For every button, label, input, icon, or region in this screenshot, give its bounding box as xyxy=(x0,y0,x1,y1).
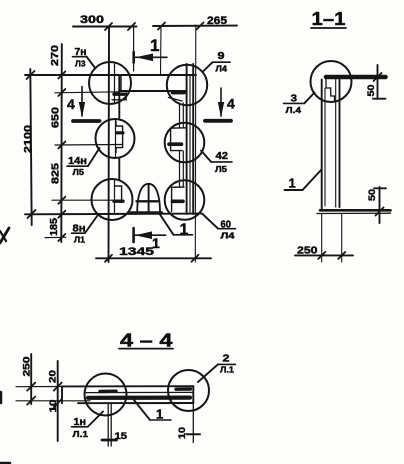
svg-text:250: 250 xyxy=(297,246,318,257)
dim line 300 xyxy=(73,26,137,28)
segmented dim line xyxy=(60,44,63,242)
wire right member left edge xyxy=(186,64,188,214)
wing B1 xyxy=(54,383,62,391)
extension down right xyxy=(341,214,343,263)
detail circle CR xyxy=(168,370,209,411)
svg-text:20: 20 xyxy=(48,370,59,383)
beam left end cap xyxy=(61,386,63,403)
leader 42 xyxy=(201,151,211,162)
dim line 1345 xyxy=(96,257,211,259)
bottom tick of 50 top xyxy=(373,98,386,100)
bar 7n/L3 xyxy=(73,56,87,58)
tick y75 xyxy=(58,72,65,79)
detail circle L1 xyxy=(89,62,131,104)
tick xyxy=(192,255,199,262)
dim 50 bottom: line xyxy=(379,187,381,223)
svg-text:Л5: Л5 xyxy=(73,167,85,177)
tick xyxy=(158,23,165,30)
wing A1 xyxy=(27,383,35,391)
lifting loop center line xyxy=(148,184,150,212)
wire left member inner line xyxy=(114,64,116,103)
svg-text:4: 4 xyxy=(67,96,75,112)
detail L3 weld dash xyxy=(114,199,123,202)
fraction bar 1n/L1 xyxy=(72,426,89,428)
channel left band line2 xyxy=(324,88,326,206)
part1 underline s44 xyxy=(150,419,171,421)
svg-text:185: 185 xyxy=(49,218,60,236)
svg-text:Л4: Л4 xyxy=(221,231,235,241)
CL weld dash xyxy=(100,390,116,394)
tick xyxy=(338,252,345,259)
detail L2 bracket xyxy=(116,122,123,153)
wire frame top edge + left extension xyxy=(25,74,196,76)
svg-text:15: 15 xyxy=(115,431,128,442)
tick y145 xyxy=(58,142,65,149)
extension down left xyxy=(321,214,323,263)
beam bottom edge xyxy=(78,402,193,404)
dim 50 top: line xyxy=(377,65,379,99)
bar 14n/L5 xyxy=(67,165,88,167)
tick xyxy=(105,23,112,30)
leader 2/L1 xyxy=(198,364,218,382)
svg-text:50: 50 xyxy=(366,85,377,97)
S1 top flange thick xyxy=(326,75,386,80)
section 4 left arrow shaft xyxy=(81,87,83,117)
detail L2 weld dash xyxy=(117,131,124,134)
wire arch base line xyxy=(130,211,162,213)
wire right member cover plate line b xyxy=(182,103,184,128)
detail R1 fillet diagonal xyxy=(169,98,183,102)
wire right member right edge xyxy=(192,64,194,214)
section 1 top arrow xyxy=(135,56,167,58)
right crossbar tick xyxy=(187,433,201,435)
wire right member cover plate line a xyxy=(179,103,181,128)
svg-text:60: 60 xyxy=(221,220,232,231)
svg-text:1: 1 xyxy=(289,176,296,191)
svg-text:10: 10 xyxy=(48,400,59,413)
tick xyxy=(128,23,135,30)
wire left member left edge (with extensions to top dim and bottom dim) xyxy=(108,27,111,262)
wing xyxy=(374,73,382,81)
wing xyxy=(28,210,36,218)
wing B2 xyxy=(54,399,62,407)
detail R2 bracket xyxy=(171,128,186,151)
svg-text:Л3: Л3 xyxy=(75,59,86,69)
svg-text:650: 650 xyxy=(51,106,62,128)
svg-text:7н: 7н xyxy=(75,47,87,58)
svg-text:Л4: Л4 xyxy=(216,64,228,74)
detail R3 weld dash xyxy=(173,200,184,204)
wire extension line y92.5 xyxy=(55,92,119,93)
section 1 bottom arrowhead xyxy=(135,231,152,239)
detail R1 weld dash xyxy=(173,91,185,95)
section 4 right arrow shaft xyxy=(220,88,222,116)
lifting loop crossbar xyxy=(137,200,158,202)
svg-text:265: 265 xyxy=(207,15,227,27)
leader 9 xyxy=(203,62,213,71)
svg-text:1н: 1н xyxy=(74,417,87,428)
detail R3 bracket xyxy=(172,187,184,212)
dim line B x57.7 xyxy=(57,361,59,441)
bar 8n/L1 xyxy=(72,232,86,234)
svg-text:4: 4 xyxy=(227,96,235,112)
svg-text:50: 50 xyxy=(367,189,378,201)
section line 1 bottom tick bar xyxy=(132,228,135,242)
wire extension line y145 xyxy=(55,144,122,147)
ext y386.6 xyxy=(16,386,62,388)
wire panel bottom edge long line y214 xyxy=(25,213,201,216)
channel right band line1 xyxy=(335,80,337,208)
tick xyxy=(105,255,112,262)
wire top member bottom edge xyxy=(119,90,187,92)
section line 1 top xyxy=(133,27,135,72)
section 4 right bar xyxy=(205,119,231,123)
detail L1 weld dash xyxy=(114,92,124,95)
detail circle S1 xyxy=(311,61,352,102)
title underline 4-4 xyxy=(119,348,173,350)
detail L3 bracket xyxy=(115,186,122,202)
anchor pair below CL xyxy=(107,403,109,446)
svg-text:2: 2 xyxy=(223,354,231,365)
extension x161 xyxy=(160,26,163,75)
section 1 bottom arrow xyxy=(135,234,166,236)
ext y400.7 xyxy=(16,400,62,402)
section 4 right arrowhead xyxy=(218,102,224,118)
detail circle R1 xyxy=(167,65,207,105)
svg-text:Л.1: Л.1 xyxy=(220,365,234,375)
fraction bar 2/L1 xyxy=(218,363,236,365)
svg-text:3: 3 xyxy=(291,94,298,105)
svg-text:Л5: Л5 xyxy=(215,164,227,174)
lifting loop arch outline xyxy=(137,184,160,212)
leader part1 s11 xyxy=(285,170,322,191)
svg-text:2100: 2100 xyxy=(23,124,34,153)
wire left member right edge xyxy=(118,76,120,119)
tick xyxy=(197,23,204,30)
svg-text:4 – 4: 4 – 4 xyxy=(120,331,173,351)
svg-text:Л.1: Л.1 xyxy=(73,429,89,439)
tick y200 xyxy=(58,197,65,204)
channel top step detail xyxy=(326,80,335,102)
bar 60/L4 xyxy=(218,228,236,230)
svg-text:1345: 1345 xyxy=(119,246,154,258)
beam top edge xyxy=(62,385,193,387)
svg-text:270: 270 xyxy=(50,44,61,66)
wire right member right extension (top dim to bottom dim) xyxy=(194,25,197,262)
detail circle L2 xyxy=(96,119,135,158)
top tick of 50 bottom xyxy=(374,187,386,189)
wing A2 xyxy=(27,397,35,405)
S bottom flange thick xyxy=(320,209,391,212)
anchor crossbar xyxy=(102,439,117,442)
svg-text:1: 1 xyxy=(150,36,159,55)
channel left band line1 xyxy=(321,80,323,211)
detail circle L3 xyxy=(92,179,133,220)
svg-text:1: 1 xyxy=(156,407,163,422)
tick xyxy=(318,252,325,259)
leader 1n/L1 xyxy=(88,412,103,427)
part1 underline main xyxy=(174,234,193,236)
svg-text:250: 250 xyxy=(22,357,33,377)
section 4 left arrowhead xyxy=(79,102,85,118)
section 1 top tick bar xyxy=(132,52,135,63)
wire extension line y200 xyxy=(52,199,123,201)
bar 9/L4 xyxy=(213,61,231,63)
beam right end cap xyxy=(192,386,194,403)
wire right member mid line xyxy=(189,75,191,214)
svg-text:300: 300 xyxy=(80,14,104,26)
svg-text:8н: 8н xyxy=(73,224,86,235)
section 1 top arrowhead xyxy=(136,54,154,62)
fraction bar 3/L4 xyxy=(284,102,305,104)
wing xyxy=(376,208,384,216)
detail R2 weld dash xyxy=(169,142,182,146)
tick y92.5 xyxy=(58,89,65,96)
CR weld dash xyxy=(176,387,191,391)
leader 60 xyxy=(202,214,218,229)
svg-text:Л.4: Л.4 xyxy=(286,105,302,115)
edge smudges xyxy=(0,228,9,243)
beam inner line xyxy=(86,391,192,393)
leader 8n xyxy=(85,216,98,234)
svg-text:Л1: Л1 xyxy=(74,235,85,245)
right sub vertical xyxy=(192,403,194,443)
detail circle R2 xyxy=(165,123,205,163)
leader 14n xyxy=(88,148,100,166)
tick y237.5 + stub xyxy=(45,236,66,238)
leader 7n xyxy=(87,57,96,69)
svg-text:1: 1 xyxy=(152,235,160,251)
dim line A x31 xyxy=(30,354,32,404)
section 4 left bar xyxy=(73,119,100,123)
wing xyxy=(27,71,35,79)
beam thick weld band xyxy=(88,396,190,400)
svg-text:9: 9 xyxy=(218,51,226,62)
channel right band line2 xyxy=(339,80,341,208)
svg-text:42: 42 xyxy=(216,151,229,162)
svg-text:825: 825 xyxy=(50,162,61,184)
leader part1 s44 xyxy=(134,400,150,420)
leader 3/L4 xyxy=(305,93,315,104)
svg-text:1–1: 1–1 xyxy=(312,9,346,29)
svg-text:1: 1 xyxy=(180,222,189,239)
detail circle CL xyxy=(85,374,127,416)
tick y214 xyxy=(58,211,65,218)
leader part1 main xyxy=(160,215,174,235)
svg-text:10: 10 xyxy=(177,427,188,439)
dim line 265 xyxy=(153,25,237,27)
beam lower thin line near left xyxy=(62,400,90,402)
S bottom lower line xyxy=(317,212,391,214)
dim 250 line xyxy=(295,254,353,256)
detail L1 bracket xyxy=(112,77,126,100)
overall dim line 2100 xyxy=(30,69,31,225)
title underline 1-1 xyxy=(311,27,346,29)
detail circle R3 xyxy=(165,180,205,220)
svg-text:14н: 14н xyxy=(68,156,87,167)
bar 42/L5 xyxy=(211,161,232,163)
